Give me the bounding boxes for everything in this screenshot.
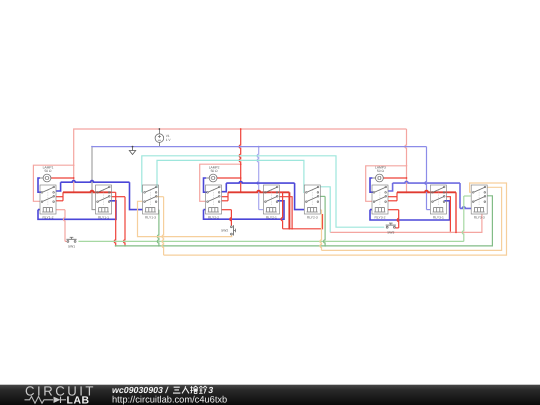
svg-text:RLY1-1: RLY1-1 xyxy=(98,216,109,220)
svg-text:RLY2-2: RLY2-2 xyxy=(208,216,219,220)
svg-text:50 Ω: 50 Ω xyxy=(44,169,52,173)
svg-text:50 Ω: 50 Ω xyxy=(211,169,219,173)
svg-text:RLY1-3: RLY1-3 xyxy=(145,216,156,220)
svg-text:SW1: SW1 xyxy=(68,245,75,249)
svg-text:RLY3-2: RLY3-2 xyxy=(375,216,386,220)
svg-text:LAB: LAB xyxy=(67,395,90,405)
svg-text:SW3: SW3 xyxy=(387,231,394,235)
svg-text:50 Ω: 50 Ω xyxy=(377,169,385,173)
svg-text:3: 3 xyxy=(208,385,213,395)
svg-text:RLY2-1: RLY2-1 xyxy=(266,216,277,220)
svg-text:RLY1-2: RLY1-2 xyxy=(43,216,54,220)
svg-text:RLY2-3: RLY2-3 xyxy=(307,216,318,220)
svg-text:RLY3-1: RLY3-1 xyxy=(433,216,444,220)
svg-text:RLY3-3: RLY3-3 xyxy=(474,216,485,220)
svg-text:http://circuitlab.com/c4u6txb: http://circuitlab.com/c4u6txb xyxy=(112,394,227,404)
svg-text:SW2: SW2 xyxy=(221,229,228,233)
